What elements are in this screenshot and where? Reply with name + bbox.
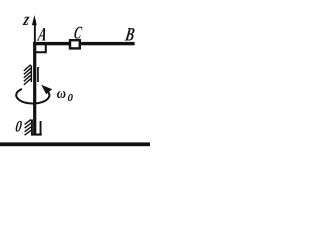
bottom bearing hatching: [25, 119, 32, 135]
upper bearing right line: [37, 67, 39, 82]
svg-text:ω: ω: [57, 86, 66, 102]
shaft Oz: [33, 42, 36, 135]
bottom bearing bottom: [31, 134, 42, 136]
upper bearing left line: [31, 66, 32, 83]
z axis arrowhead: [32, 15, 37, 25]
svg-text:0: 0: [68, 92, 74, 104]
rotation arrow omega0 arc: [16, 89, 49, 104]
upper bearing hatching: [24, 65, 31, 85]
bottom bearing left wall: [31, 120, 33, 136]
bottom bearing right wall: [40, 121, 42, 136]
ground: [0, 142, 150, 146]
slider C: [70, 40, 80, 48]
rotation arrowhead: [41, 85, 52, 95]
z axis line: [34, 20, 36, 43]
right-angle marker: [36, 45, 46, 53]
rod AB: [33, 42, 135, 45]
